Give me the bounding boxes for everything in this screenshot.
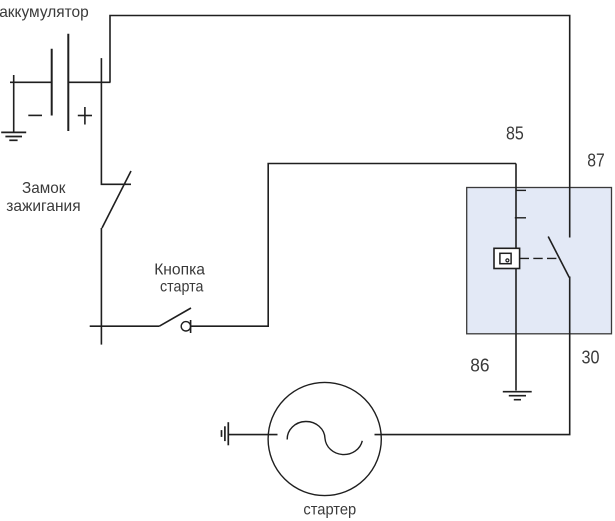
svg-text:87: 87 xyxy=(587,151,605,171)
wire start button left xyxy=(90,325,160,327)
wire relay coil 85 to 86 ground drop xyxy=(515,164,517,391)
relay K1 body xyxy=(467,188,612,334)
relay pin tick 1 xyxy=(516,189,526,191)
svg-text:30: 30 xyxy=(582,347,600,367)
battery positive plate xyxy=(67,34,69,131)
ground starter xyxy=(222,422,229,445)
relay contact blade xyxy=(548,237,569,278)
start button actuator circle xyxy=(181,322,190,331)
wire starter left to ground xyxy=(229,434,278,436)
relay coil symbol outer box xyxy=(494,248,520,268)
wire ignition switch to start button junction xyxy=(100,228,102,345)
ground relay pin 86 xyxy=(503,392,532,400)
relay coil dashed actuation link xyxy=(520,257,557,259)
relay coil symbol inner box xyxy=(500,253,511,263)
wire battery positive to bus xyxy=(68,81,110,83)
relay pin tick 2 xyxy=(515,217,526,219)
start button SB1 blade xyxy=(159,308,191,326)
svg-text:Замок: Замок xyxy=(22,180,66,197)
starter motor M1 circle xyxy=(268,382,381,495)
wire battery negative to ground xyxy=(10,81,52,83)
svg-text:старта: старта xyxy=(160,278,203,295)
svg-text:Кнопка: Кнопка xyxy=(154,261,205,278)
relay coil symbol dot xyxy=(506,259,509,262)
svg-text:аккумулятор: аккумулятор xyxy=(0,4,89,21)
starter motor sine symbol xyxy=(287,421,362,454)
svg-text:85: 85 xyxy=(506,123,524,143)
svg-text:86: 86 xyxy=(470,355,489,375)
wire battery junction to ignition switch xyxy=(101,58,131,184)
wire start button to relay coil pin 85 xyxy=(191,164,516,327)
ground battery xyxy=(1,132,26,140)
wire top bus from battery to relay pin 87 xyxy=(110,16,570,238)
start button actuator bar xyxy=(190,320,192,333)
svg-text:зажигания: зажигания xyxy=(6,198,80,215)
battery minus label xyxy=(28,114,42,116)
battery plus label xyxy=(78,107,92,125)
svg-text:стартер: стартер xyxy=(303,502,356,519)
battery negative plate xyxy=(51,49,53,116)
ignition switch SA1 blade xyxy=(102,171,131,228)
wire relay pin 30 to starter xyxy=(375,277,570,435)
